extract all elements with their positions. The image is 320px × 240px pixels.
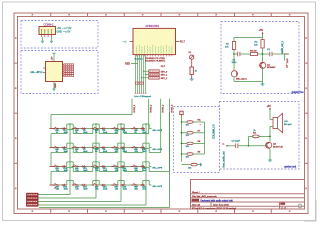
svg-text:spieker unit: spieker unit <box>284 166 296 169</box>
svg-text:4m8: 4m8 <box>64 189 69 191</box>
switch S13 <box>91 165 99 172</box>
svg-text:ROW_2: ROW_2 <box>151 104 153 113</box>
svg-text:Size: A4: Size: A4 <box>192 204 201 207</box>
svg-text:KEY_0: KEY_0 <box>161 71 168 73</box>
svg-text:P3.0/RXD P3.1/TXD: P3.0/RXD P3.1/TXD <box>145 58 165 60</box>
C3 labels <box>232 141 241 143</box>
svg-text:14k: 14k <box>115 170 119 172</box>
emitter wire <box>269 149 271 160</box>
title block rules <box>191 194 305 209</box>
LS1 label <box>284 121 292 126</box>
resistor R2 <box>261 40 264 49</box>
switch S3 <box>91 127 99 134</box>
diode D12 <box>61 165 68 172</box>
svg-text:20k: 20k <box>135 189 139 191</box>
size and date fields <box>192 204 230 207</box>
rev field <box>280 203 287 210</box>
MCU bottom left pin labels <box>135 57 144 60</box>
row pin <box>49 128 52 130</box>
R4 labels <box>253 130 257 134</box>
svg-text:R8: R8 <box>198 141 202 143</box>
svg-text:ROW_4: ROW_4 <box>171 104 173 113</box>
svg-text:4m8: 4m8 <box>103 189 108 191</box>
R2 value <box>254 41 258 46</box>
junction <box>248 145 250 147</box>
U2 power wire top <box>52 53 55 61</box>
svg-text:10k: 10k <box>186 156 190 158</box>
row 3 wire <box>51 162 152 167</box>
svg-text:KiCad E.D.A. eeschema (2010-1: KiCad E.D.A. eeschema (2010-12-28-testin… <box>192 207 236 210</box>
column riser wire <box>204 122 206 154</box>
svg-text:+5V: +5V <box>267 105 272 108</box>
svg-text:P1.7: P1.7 <box>180 42 185 44</box>
svg-text:13k: 13k <box>95 170 99 172</box>
diode D4 <box>101 127 108 134</box>
U2 bottom wire <box>53 82 55 90</box>
Q2 labels <box>273 144 284 149</box>
column wires <box>38 112 170 208</box>
svg-text:File: kbd_AVR_sonny.sch: File: kbd_AVR_sonny.sch <box>192 195 218 198</box>
LED D1 <box>190 55 194 59</box>
svg-text:→: → <box>199 123 201 126</box>
ground symbol <box>261 84 265 86</box>
svg-text:D1: D1 <box>189 52 193 54</box>
svg-text:4m8: 4m8 <box>64 132 69 134</box>
row net labels <box>134 104 174 113</box>
resistor R8 <box>181 141 205 148</box>
base/coupling wire <box>234 53 286 55</box>
svg-text:Sheet: /: Sheet: / <box>192 191 200 194</box>
switch S19 <box>111 183 119 190</box>
svg-text:BC548C: BC548C <box>267 67 276 69</box>
ground symbol <box>268 160 272 162</box>
diode D6 <box>140 127 147 134</box>
svg-text:18k: 18k <box>95 189 99 191</box>
diode D9 <box>101 146 108 153</box>
svg-text:P3.7: P3.7 <box>161 66 166 68</box>
input pin <box>223 142 228 146</box>
svg-text:R4: R4 <box>253 132 257 134</box>
title block outer <box>191 180 305 210</box>
svg-text:OUT—p2: OUT—p2 <box>286 59 288 69</box>
svg-text:4m8: 4m8 <box>143 189 148 191</box>
svg-text:19k: 19k <box>115 189 119 191</box>
capacitor C2 <box>267 49 272 56</box>
svg-text:47k: 47k <box>225 46 229 48</box>
connector J1 <box>39 27 56 35</box>
svg-text:spieker fore: spieker fore <box>291 91 304 94</box>
svg-text:GND: GND <box>55 83 57 88</box>
svg-text:C1: C1 <box>233 59 237 61</box>
junction <box>54 187 56 189</box>
row 2 wire <box>51 143 152 148</box>
resistor R1 <box>232 42 235 50</box>
sheet frame outer <box>14 13 308 214</box>
switch S6 <box>52 146 60 153</box>
svg-text:LS1: LS1 <box>284 121 289 123</box>
MCU bottom pin wires <box>135 55 147 93</box>
svg-text:KEY_1: KEY_1 <box>161 75 168 77</box>
svg-text:4m8: 4m8 <box>64 151 69 153</box>
svg-text:10k: 10k <box>186 124 190 126</box>
diode D10 <box>120 146 127 153</box>
svg-text:Keyboard with audio output uni: Keyboard with audio output unit <box>201 199 234 202</box>
switch S10 <box>131 146 139 153</box>
diode D14 <box>101 165 108 172</box>
svg-text:KEY_2: KEY_2 <box>161 78 168 80</box>
svg-text:GR—0·P9: GR—0·P9 <box>153 130 163 132</box>
transistor Q1 <box>259 62 266 68</box>
svg-text:P3.2/INT0 P3.3/INT1: P3.2/INT0 P3.3/INT1 <box>145 61 166 63</box>
resistor R10 <box>182 163 202 169</box>
switch S12 <box>72 165 80 172</box>
resistor R9 <box>181 152 205 159</box>
svg-text:ROW_1: ROW_1 <box>134 104 136 113</box>
wire RES <box>131 63 138 65</box>
ground symbol <box>41 41 44 43</box>
switch S17 <box>72 183 80 190</box>
diode D3 <box>81 127 88 134</box>
diode D5 <box>120 127 127 134</box>
dashed sheet box: column network <box>174 107 220 173</box>
svg-text:t1q·2 d·u: t1q·2 d·u <box>135 57 144 60</box>
dashed sheet box: serial interface <box>21 51 98 94</box>
switch S4 <box>111 127 119 134</box>
svg-text:R3 1M: R3 1M <box>250 50 257 52</box>
net flag boxes <box>149 70 168 80</box>
switch S18 <box>91 183 99 190</box>
switch S2 <box>72 127 80 134</box>
svg-text:COLUMN_1-5: COLUMN_1-5 <box>214 124 216 139</box>
wire <box>191 75 193 80</box>
junction <box>262 53 264 55</box>
svg-text:audio_out_1: audio_out_1 <box>281 40 284 53</box>
title field <box>192 199 234 203</box>
svg-text:4m8: 4m8 <box>143 170 148 172</box>
diode D7 <box>61 146 68 153</box>
svg-text:MIC-a2g·m: MIC-a2g·m <box>236 79 247 81</box>
resistor R6 <box>181 120 205 127</box>
dashed sheet box: speaker output <box>220 102 300 170</box>
svg-text:R7: R7 <box>198 130 202 132</box>
svg-text:R1: R1 <box>226 43 230 45</box>
switch S14 <box>111 165 119 172</box>
collector wire <box>262 48 264 62</box>
svg-text:+5V: +5V <box>259 29 264 32</box>
switch S20 <box>131 183 139 190</box>
svg-text:R9: R9 <box>198 152 202 154</box>
switch S5 <box>131 127 139 134</box>
MCU bottom extra labels <box>161 66 166 68</box>
svg-text:4m8: 4m8 <box>83 189 88 191</box>
dashed sheet box: power supply <box>21 21 98 49</box>
speaker LS1 <box>270 113 283 132</box>
U2 left pins <box>43 68 46 73</box>
svg-text:RES: RES <box>125 63 130 65</box>
row pin <box>49 165 52 167</box>
sheet frame inner <box>18 17 305 210</box>
top rail wire <box>234 38 263 42</box>
capacitor C3 <box>236 144 238 149</box>
row pin <box>49 184 52 186</box>
svg-text:1k: 1k <box>195 71 198 73</box>
svg-text:refL—SP·in: refL—SP·in <box>31 71 44 74</box>
wire <box>191 59 193 67</box>
R4 wires <box>249 136 271 145</box>
MCU IC2 body <box>133 28 176 54</box>
resistor R4 <box>252 135 259 138</box>
diode D11 <box>140 146 147 153</box>
svg-text:L4·x—P3/keypad: L4·x—P3/keypad <box>134 96 152 98</box>
svg-text:4m8: 4m8 <box>123 189 128 191</box>
IC U2 <box>46 62 63 82</box>
switch S1 <box>52 127 60 134</box>
svg-text:17k: 17k <box>75 189 79 191</box>
resistor R7 <box>181 130 205 137</box>
svg-text:10k: 10k <box>186 135 190 137</box>
switch S9 <box>111 146 119 153</box>
diode D8 <box>81 146 88 153</box>
row 1 wire <box>51 124 152 129</box>
svg-text:→: → <box>199 118 201 121</box>
MCU row feed wires <box>51 99 170 185</box>
MCU pin net labels <box>145 58 166 63</box>
svg-text:4m8: 4m8 <box>143 151 148 153</box>
svg-text:R2: R2 <box>255 41 259 43</box>
output connector <box>281 40 289 68</box>
row 4 wire <box>51 181 152 186</box>
crystal X1 <box>135 82 143 84</box>
frame zone ticks <box>14 13 308 214</box>
column pin arrows <box>199 118 201 126</box>
emitter / ground wires <box>234 69 263 84</box>
+5V power symbol <box>259 29 264 37</box>
resistor R3 <box>250 53 257 56</box>
diode D21 <box>140 184 147 191</box>
row pin <box>49 147 52 149</box>
svg-text:3k: 3k <box>95 132 98 134</box>
transistor Q2 <box>266 142 272 148</box>
switch S8 <box>91 146 99 153</box>
svg-text:10k: 10k <box>186 146 190 148</box>
switch S11 <box>52 165 60 172</box>
diode D19 <box>101 184 108 191</box>
J1 pin wires <box>42 35 52 42</box>
diode D2 <box>61 127 68 134</box>
hierarchical labels ROW1-ROW4 <box>27 193 39 206</box>
+5V power symbol <box>267 105 272 118</box>
svg-text:from_audio_out: from_audio_out <box>223 151 226 167</box>
diode D16 <box>140 165 147 172</box>
junction <box>269 136 271 138</box>
svg-text:AT89C2051: AT89C2051 <box>146 24 160 28</box>
MCU bottom pin names and stubs <box>137 45 172 56</box>
dashed sheet box: microphone preamp <box>221 22 299 94</box>
diode D18 <box>81 184 88 191</box>
svg-text:GR—0·P9: GR—0·P9 <box>153 186 163 188</box>
svg-text:▷: ▷ <box>223 142 225 145</box>
svg-text:10k: 10k <box>254 44 258 46</box>
ground symbol <box>52 89 55 91</box>
diode D20 <box>120 184 127 191</box>
diode D13 <box>81 165 88 172</box>
diode D15 <box>120 165 127 172</box>
switch S16 <box>52 183 60 190</box>
power flag <box>180 111 183 116</box>
svg-text:ROW_3: ROW_3 <box>163 104 165 113</box>
C1 value <box>232 59 238 64</box>
svg-text:Id: 1/1: Id: 1/1 <box>281 208 287 210</box>
svg-text:8k: 8k <box>95 151 98 153</box>
Q1 labels <box>267 64 276 69</box>
switch S7 <box>72 146 80 153</box>
input wire <box>227 145 266 147</box>
MCU right pin <box>176 42 186 44</box>
svg-text:1k: 1k <box>253 130 256 132</box>
wire jogs to net flags <box>141 71 149 79</box>
resistor R5 <box>190 67 193 75</box>
svg-text:C2: C2 <box>267 49 271 51</box>
logo mark <box>298 204 302 208</box>
svg-text:CONN-2: CONN-2 <box>44 23 55 27</box>
svg-text:GR—0·P9: GR—0·P9 <box>153 149 163 151</box>
power flag <box>50 41 53 43</box>
svg-text:GND —o 0V: GND —o 0V <box>57 31 71 34</box>
svg-text:100n: 100n <box>232 62 238 64</box>
diode D17 <box>61 184 68 191</box>
svg-text:GR—0·P9: GR—0·P9 <box>153 168 163 170</box>
R1 value <box>225 43 230 48</box>
switch S15 <box>131 165 139 172</box>
junction <box>233 53 235 55</box>
svg-text:C3 10µF: C3 10µF <box>232 141 241 143</box>
svg-text:Date: 5 jan 2011: Date: 5 jan 2011 <box>213 204 230 207</box>
svg-text:BC337-40: BC337-40 <box>273 146 284 148</box>
svg-text:Q2: Q2 <box>273 144 277 146</box>
svg-text:+5V: +5V <box>52 56 54 60</box>
svg-text:8Ω spkr: 8Ω spkr <box>284 123 292 126</box>
svg-text:4m8: 4m8 <box>64 170 69 172</box>
svg-text:16k: 16k <box>56 189 60 191</box>
svg-text:—❘: —❘ <box>123 41 127 44</box>
collector wire <box>269 126 271 141</box>
svg-text:10k: 10k <box>188 167 192 169</box>
svg-text:Q1: Q1 <box>267 64 271 66</box>
wire R1 bottom to mic <box>233 50 235 71</box>
bus wire <box>181 117 183 162</box>
MCU left pin VCC <box>123 41 134 44</box>
capacitor C1 <box>238 52 240 57</box>
paper shadow <box>304 200 317 221</box>
microphone MK1 <box>231 71 237 77</box>
connector pin field K1 <box>63 64 74 77</box>
ground symbol <box>190 79 194 81</box>
